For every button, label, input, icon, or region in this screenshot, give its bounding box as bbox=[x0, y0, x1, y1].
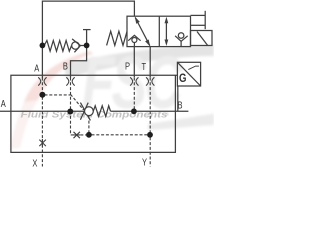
svg-text:P: P bbox=[125, 60, 130, 71]
svg-text:X: X bbox=[32, 157, 37, 168]
svg-text:Y: Y bbox=[142, 156, 147, 167]
svg-text:B: B bbox=[63, 60, 68, 71]
svg-text:T: T bbox=[142, 61, 147, 72]
svg-text:A: A bbox=[34, 62, 39, 73]
svg-text:G: G bbox=[179, 72, 186, 85]
svg-text:A: A bbox=[1, 98, 6, 109]
svg-text:B: B bbox=[178, 99, 183, 110]
